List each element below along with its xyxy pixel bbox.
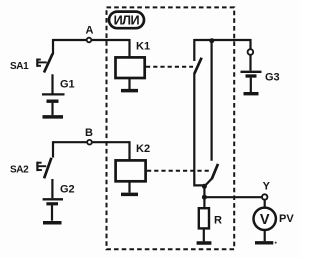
svg-text:ИЛИ: ИЛИ xyxy=(114,14,140,28)
svg-text:K1: K1 xyxy=(136,41,150,53)
svg-text:PV: PV xyxy=(279,213,294,225)
svg-text:Y: Y xyxy=(263,181,271,193)
svg-text:G1: G1 xyxy=(60,79,75,91)
svg-text:B: B xyxy=(85,127,93,139)
svg-text:A: A xyxy=(86,25,94,37)
svg-text:K2: K2 xyxy=(136,143,150,155)
svg-text:SA1: SA1 xyxy=(10,61,29,72)
svg-text:G3: G3 xyxy=(265,72,280,84)
svg-text:SA2: SA2 xyxy=(10,165,29,176)
svg-text:G2: G2 xyxy=(60,183,75,195)
svg-text:R: R xyxy=(214,215,222,227)
svg-text:V: V xyxy=(260,212,270,228)
